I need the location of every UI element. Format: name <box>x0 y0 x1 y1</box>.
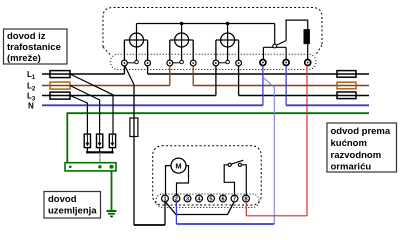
wire tariff control red: riser to coil terminal <box>306 66 308 216</box>
node link bar junction left <box>86 151 88 153</box>
wire L2 bus right segment <box>193 85 369 87</box>
wire N bus right segment <box>286 104 369 106</box>
wire stub terminal4 to L2 bus <box>169 66 171 86</box>
svg-text:ormariću: ormariću <box>331 162 372 173</box>
terminal 3 <box>145 60 151 66</box>
wire L2 bus left segment <box>42 85 170 87</box>
wire tap L3 to arrester 1 <box>70 96 87 135</box>
wire stub terminal9 to L3 bus <box>238 66 240 96</box>
receiver terminal 8 <box>243 195 250 202</box>
svg-text:8: 8 <box>244 196 247 202</box>
meter terminal strip dotted outline <box>111 54 317 69</box>
wire stub terminal11 to N bus out <box>285 66 287 106</box>
svg-text:odvod prema: odvod prema <box>331 126 391 137</box>
surge arrester 2 <box>97 134 103 148</box>
wire arrester link bar <box>86 151 113 153</box>
earth busbar <box>65 163 116 171</box>
receiver terminal 5 <box>208 195 215 202</box>
svg-text:razvodnom: razvodnom <box>331 150 382 161</box>
wire arrester 1 to link bar <box>86 148 88 153</box>
wire tariff control red: bottom run <box>246 215 307 217</box>
wire tap L1 to arrester 3 <box>70 74 113 134</box>
wire link terminal1 to terminal7 <box>166 202 234 215</box>
node earth busbar dot 3 <box>110 165 114 169</box>
node junction dot bus/element3 <box>226 22 230 26</box>
wire N drop from receiver terminal 2 <box>175 202 177 224</box>
meter enclosure corner join left <box>103 47 110 55</box>
receiver enclosure dashed outline <box>153 146 262 205</box>
svg-text:3: 3 <box>186 196 189 202</box>
meter enclosure dashed outline <box>103 8 322 48</box>
receiver terminal 1 <box>162 195 169 202</box>
receiver terminal 2 <box>173 195 180 202</box>
label box: dovod uzemljenja <box>44 192 101 219</box>
wire switch right lead to terminal 8 <box>242 165 247 195</box>
fuse F4 (receiver fuse) <box>130 118 138 137</box>
wire N bottom run to riser <box>176 223 274 225</box>
svg-text:2: 2 <box>175 196 178 202</box>
receiver terminal strip dotted outline <box>156 194 259 208</box>
wire switch left lead to terminal 7 <box>224 165 234 195</box>
node junction dot bus/element2 <box>180 22 184 26</box>
wire relay blade to coil link <box>286 20 308 40</box>
svg-text:M: M <box>175 162 181 171</box>
fuse F2 (L2 service fuse) <box>50 82 70 89</box>
terminal 10 (N in) <box>260 60 266 66</box>
wire PE green bus <box>67 113 369 163</box>
receiver terminal 3 <box>184 195 191 202</box>
svg-text:5: 5 <box>209 196 212 202</box>
svg-text:kućnom: kućnom <box>331 138 367 149</box>
terminal 1 <box>122 60 128 66</box>
wire coil to terminal <box>307 44 309 60</box>
relay K1 changeover contact <box>263 24 286 60</box>
fuse F1 (L1 service fuse) <box>50 71 70 78</box>
node earth busbar dot 2 <box>98 165 101 168</box>
motor M1 (clock motor) <box>171 158 186 173</box>
wire N branch to receiver (diagonal + long drop) <box>263 77 274 224</box>
wire stub terminal1 to L1 bus <box>123 66 125 74</box>
svg-text:dovod: dovod <box>48 194 77 205</box>
fuse F3 (L3 service fuse) <box>50 92 70 99</box>
svg-text:uzemljenja: uzemljenja <box>48 206 97 217</box>
svg-text:dovod iz: dovod iz <box>7 31 46 42</box>
label box: dovod iz trafostanice (mreže) <box>4 29 68 64</box>
receiver terminal 4 <box>196 195 203 202</box>
switch S1 (receiver contact) <box>228 160 243 166</box>
ground symbol <box>107 211 117 216</box>
fuse F9 (L3 outgoing fuse) <box>337 92 356 99</box>
wire receiver phase drop <box>133 85 135 225</box>
terminal 9 <box>236 60 242 66</box>
wire L1 bus left segment <box>42 73 124 75</box>
node earth busbar dot 1 <box>69 166 72 168</box>
terminal 4 <box>167 60 173 66</box>
wire metered phase tap: terminal1 to receiver fuse <box>125 66 134 85</box>
wire stub terminal7 to L3 bus <box>215 66 217 96</box>
wire link bar to earth busbar <box>99 152 101 162</box>
svg-text:1: 1 <box>163 196 166 202</box>
wire motor left lead to terminal 1 <box>166 166 172 196</box>
svg-text:trafostanice: trafostanice <box>7 42 61 53</box>
wire L1 bus right segment <box>148 73 369 75</box>
wire stub terminal10 to N bus <box>262 66 264 106</box>
wire up to receiver terminal 1 <box>164 202 166 226</box>
wire earth busbar to ground electrode <box>111 171 113 211</box>
label box: odvod prema kućnom razvodnom ormariću <box>327 123 397 173</box>
fuse F7 (L1 outgoing fuse) <box>337 71 356 78</box>
wire arrester 2 to link bar <box>99 148 101 153</box>
relay coil K1 <box>304 30 309 44</box>
wire N bus left segment <box>42 104 263 106</box>
meter element 3 (L3 measuring element) <box>216 24 239 64</box>
svg-text:N: N <box>28 101 34 110</box>
svg-text:6: 6 <box>221 196 224 202</box>
wire L3 bus left segment <box>42 95 216 97</box>
node link bar junction right <box>111 151 113 153</box>
wire arrester 3 to link bar <box>111 148 113 153</box>
wire receiver phase bottom run <box>134 224 165 226</box>
terminal 7 <box>213 60 219 66</box>
wire stub terminal3 to L1 bus <box>147 66 149 74</box>
wire L3 bus right segment <box>239 95 369 97</box>
receiver terminal 7 <box>231 195 238 202</box>
meter element 1 (L1 measuring element) <box>124 24 147 64</box>
surge arrester 3 <box>109 134 115 148</box>
svg-text:(mreže): (mreže) <box>7 53 41 64</box>
wire stub terminal6 to L2 bus <box>192 66 194 86</box>
terminal 12 (tariff coil) <box>305 60 311 66</box>
fuse F8 (L2 outgoing fuse) <box>337 82 356 89</box>
receiver terminal 6 <box>220 195 227 202</box>
terminal 11 (N out) <box>283 60 289 66</box>
terminal 6 <box>190 60 196 66</box>
wire meter voltage bus <box>137 23 275 25</box>
surge arrester 1 <box>84 134 90 148</box>
wire motor right lead to terminal 2 <box>177 166 189 196</box>
meter enclosure corner join right <box>316 45 322 55</box>
wire tariff control red: terminal 8 drop <box>245 202 247 216</box>
wire tap L2 to arrester 2 <box>70 86 100 135</box>
svg-text:7: 7 <box>233 196 236 202</box>
meter element 2 (L2 measuring element) <box>170 24 193 64</box>
